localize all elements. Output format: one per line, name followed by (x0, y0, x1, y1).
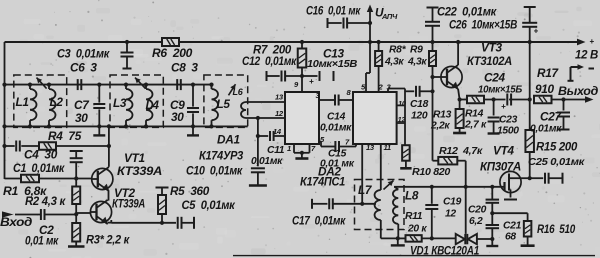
ground L8 (397, 238, 399, 245)
capacitor C15 (334, 141, 336, 152)
svg-text:R12 4,7к: R12 4,7к (439, 146, 483, 157)
svg-text:L1: L1 (16, 95, 29, 109)
svg-text:12: 12 (445, 209, 456, 220)
wire bottom frame (233, 255, 595, 257)
svg-text:R3* 2,2 к: R3* 2,2 к (86, 233, 130, 247)
wire C2021-R16 (492, 212, 527, 214)
junction base-R2R3 (74, 212, 78, 216)
wire left frame vertical (4, 42, 6, 179)
shield box L5 L6 (204, 75, 248, 127)
svg-text:С22 0,01мк: С22 0,01мк (437, 5, 497, 19)
resistor R1 (21, 175, 39, 183)
svg-text:Выход: Выход (558, 84, 598, 98)
capacitor C14 (334, 95, 336, 106)
IC DA2 box (353, 92, 397, 144)
UAPCH arrow (367, 5, 373, 13)
svg-text:С12 0,01мк: С12 0,01мк (242, 54, 297, 68)
svg-text:L4: L4 (146, 98, 160, 112)
svg-text:С14: С14 (327, 112, 346, 123)
junction C19 bottom (430, 236, 434, 240)
junction L1 top (28, 83, 32, 87)
capacitor C12 (266, 71, 268, 81)
capacitor C10 (251, 167, 265, 169)
svg-text:2,7 к: 2,7 к (464, 120, 487, 131)
svg-text:R9: R9 (410, 45, 423, 56)
junction emitter node (458, 97, 462, 101)
svg-text:+: + (501, 102, 506, 111)
wire pin9 (301, 76, 303, 92)
shield box L3 L4 (110, 75, 163, 127)
junction rail-VT3 (456, 40, 460, 44)
wire VT2 emitter (108, 222, 112, 224)
capacitor C17 (311, 199, 313, 209)
svg-text:12 В: 12 В (575, 48, 599, 62)
resistor R12 (433, 160, 439, 162)
junction frame-tankrail (2, 124, 6, 128)
resistor R17 (534, 96, 552, 104)
junction L3 bottom (124, 124, 128, 128)
svg-text:R6 200: R6 200 (152, 46, 193, 60)
svg-text:С17 0,01мк: С17 0,01мк (292, 214, 346, 228)
capacitor C2 (40, 209, 42, 220)
tuning arrow L3-L4 (135, 78, 146, 89)
svg-text:68: 68 (505, 232, 516, 243)
junction C16-UAPCH (368, 21, 372, 25)
inductor L3 (125, 85, 127, 89)
capacitor C18 (405, 90, 414, 92)
wire gate row (394, 186, 500, 188)
capacitor C11 (258, 135, 268, 137)
svg-text:VT1: VT1 (124, 151, 145, 165)
inductor L6 (241, 102, 246, 118)
junction frame-input (2, 83, 6, 87)
tuning arrow L7-L8 (384, 181, 394, 190)
inductor L7 (375, 190, 381, 220)
svg-text:С16 0,01 мк: С16 0,01 мк (306, 4, 361, 18)
svg-text:R8*: R8* (389, 45, 407, 56)
junction rail-UAPCH (368, 40, 372, 44)
junction C7 bottom (97, 124, 101, 128)
junction L1 bottom (28, 124, 32, 128)
svg-text:L8: L8 (405, 189, 419, 203)
resistor R6 (162, 38, 179, 46)
capacitor C22 (427, 7, 439, 9)
junction drain (528, 176, 532, 180)
junction base-R9line (430, 75, 434, 79)
svg-text:30: 30 (171, 110, 184, 124)
capacitor C5 (177, 217, 179, 229)
svg-text:+: + (589, 37, 594, 46)
junction C7 top (97, 83, 101, 87)
wire pin3 DA2 (387, 89, 389, 93)
junction C9 top (191, 83, 195, 87)
svg-text:R16 510: R16 510 (537, 222, 576, 236)
wire right column (529, 42, 531, 100)
svg-text:20 к: 20 к (407, 224, 427, 235)
transistor VT4 (500, 171, 521, 192)
junction L5 top (209, 83, 213, 87)
junction L2 bottom (47, 124, 51, 128)
resistor R2 (75, 179, 77, 187)
junction rail-C3 (125, 40, 129, 44)
svg-text:R15 200: R15 200 (536, 140, 578, 154)
svg-text:30: 30 (75, 111, 88, 125)
junction L4 bottom (144, 124, 148, 128)
svg-text:L2: L2 (50, 95, 64, 109)
transistor VT2 (90, 201, 111, 222)
resistor R15 (525, 130, 534, 152)
svg-text:4,3к: 4,3к (407, 57, 427, 68)
capacitor C7 (98, 85, 100, 103)
wire L6 bottom to C10 (257, 118, 259, 166)
junction VT1 collector rail (107, 124, 111, 128)
resistor R16 (527, 213, 529, 221)
svg-text:10мк×15В: 10мк×15В (307, 59, 358, 70)
wire top supply rail right segment (179, 41, 583, 43)
svg-text:DA1: DA1 (217, 133, 240, 147)
svg-text:С10 0,01мк: С10 0,01мк (186, 164, 243, 178)
wire VT3 collector (457, 42, 459, 65)
svg-text:КТ339А: КТ339А (112, 197, 145, 211)
svg-text:+: + (309, 77, 314, 86)
svg-text:С25 0,01мк: С25 0,01мк (528, 157, 585, 168)
resistor R14 (467, 96, 484, 104)
wire VT3 emitter (458, 89, 460, 100)
svg-text:13: 13 (275, 93, 284, 102)
svg-text:С11: С11 (267, 145, 285, 156)
svg-text:С7: С7 (74, 98, 90, 112)
resistor R11 horizontal (398, 237, 406, 239)
junction C27 (561, 97, 565, 101)
inductor L5 (211, 85, 213, 89)
capacitor C23 (493, 100, 495, 116)
junction C11 tap (256, 134, 260, 138)
junction frame-C4 (2, 144, 6, 148)
svg-text:1500: 1500 (497, 126, 519, 137)
svg-text:L7: L7 (358, 183, 373, 197)
junction C1-base (74, 176, 78, 180)
wire input (15, 214, 41, 216)
svg-text:С27: С27 (540, 110, 562, 124)
svg-text:С26 10мк×15В: С26 10мк×15В (449, 18, 518, 32)
svg-text:С20: С20 (468, 205, 487, 216)
capacitor C24 (506, 94, 508, 106)
svg-text:0,01мк: 0,01мк (251, 156, 283, 167)
svg-text:L6: L6 (233, 87, 244, 97)
wire pin3 to pin8 (319, 99, 335, 101)
junction collector-R4 (107, 144, 111, 148)
svg-text:С19: С19 (443, 197, 462, 208)
svg-text:R4 75: R4 75 (48, 129, 82, 143)
tuning arrow L5-L6 (229, 84, 236, 95)
wire pin13 down (361, 144, 363, 204)
wire tank top (5, 84, 212, 86)
tuning arrow L1-L2 (37, 78, 47, 89)
svg-text:КТ3102А: КТ3102А (467, 54, 512, 68)
svg-text:120: 120 (411, 111, 428, 122)
svg-text:С6 3: С6 3 (70, 61, 97, 75)
resistor R13 (459, 100, 461, 110)
input arrow (2, 211, 14, 217)
wire pin11 down (380, 144, 382, 190)
svg-text:0,01мк: 0,01мк (320, 123, 352, 134)
junction L3 top (124, 83, 128, 87)
inductor L2 (48, 85, 50, 89)
wire top supply rail left segment (5, 41, 163, 43)
inductor L8 (395, 187, 399, 190)
svg-text:0,01 мк: 0,01 мк (25, 234, 59, 248)
wire DA1 gnd pins (293, 144, 295, 153)
junction C23 node (492, 97, 496, 101)
svg-text:С21: С21 (503, 221, 522, 232)
svg-text:Вход: Вход (0, 215, 32, 229)
svg-text:С24: С24 (484, 71, 505, 85)
wire pin10 stub (397, 104, 405, 106)
junction C19-gate (430, 185, 434, 189)
svg-text:R11: R11 (405, 211, 423, 222)
svg-text:К174ПС1: К174ПС1 (300, 175, 345, 189)
capacitor C21 (491, 213, 493, 225)
svg-text:+: + (534, 27, 539, 36)
svg-text:13: 13 (366, 143, 375, 152)
wire emitter row (460, 99, 467, 101)
svg-text:12: 12 (275, 109, 284, 118)
capacitor C25 (530, 177, 544, 179)
shield box L1 L2 (14, 75, 67, 127)
junction rail-R7 (300, 40, 304, 44)
output jack bracket (570, 67, 572, 81)
wire VT4 drain (521, 177, 530, 179)
svg-text:КП307А: КП307А (480, 160, 521, 174)
capacitor C13 (302, 75, 318, 77)
resistor R9 (432, 42, 434, 51)
svg-text:К174УР3: К174УР3 (199, 149, 244, 163)
wire C4 R4 feedback (5, 145, 15, 147)
svg-text:L3: L3 (113, 96, 127, 110)
transistor VT1 (92, 168, 113, 189)
junction C9 bottom (191, 124, 195, 128)
junction R7-C12-pin9 (300, 74, 304, 78)
svg-text:АПЧ: АПЧ (381, 12, 398, 21)
svg-text:КТ339А: КТ339А (117, 164, 162, 178)
svg-text:L5: L5 (217, 97, 231, 111)
junction L5 bottom (209, 124, 213, 128)
resistor R7 (298, 49, 307, 68)
VT4 source bar (504, 199, 517, 201)
wire VT1 base (5, 178, 22, 180)
capacitor C1 (70, 150, 83, 152)
capacitor C6 (77, 79, 79, 90)
junction L8 bottom (396, 236, 400, 240)
transistor VT3 (441, 66, 462, 87)
junction pin13-C17 (360, 202, 364, 206)
capacitor C8 (176, 79, 178, 90)
ground under C7 (98, 126, 100, 135)
inductor L1 (29, 85, 31, 89)
svg-text:С1 0,01мк: С1 0,01мк (13, 161, 65, 175)
capacitor C26 (524, 6, 536, 8)
junction C20-C21 (490, 211, 494, 215)
svg-text:6,2: 6,2 (469, 216, 483, 227)
resistor R8 (378, 42, 380, 51)
svg-text:R14: R14 (465, 109, 484, 120)
junction C18-R9 (430, 89, 434, 93)
svg-text:10мк×15Б: 10мк×15Б (478, 85, 522, 96)
svg-text:R10 820: R10 820 (412, 167, 451, 178)
svg-text:С5 0,01мк: С5 0,01мк (182, 198, 236, 212)
svg-text:С23: С23 (499, 115, 518, 126)
junction rail-R9 (430, 40, 434, 44)
junction DA1 gnd (300, 151, 304, 155)
diode pair VD1 (456, 234, 465, 244)
junction C20-gate (490, 185, 494, 189)
wire VT1 emitter to VT2 collector (108, 191, 110, 201)
capacitor C27 (563, 100, 565, 111)
svg-text:С8 3: С8 3 (171, 61, 198, 75)
capacitor C9 (192, 85, 194, 107)
capacitor C4 (15, 141, 17, 152)
ground under C9 (192, 126, 194, 135)
junction rail-R8 (377, 40, 381, 44)
shield box L7 L8 (355, 180, 405, 230)
svg-text:R17: R17 (537, 66, 559, 80)
svg-text:0,01мк: 0,01мк (530, 124, 562, 135)
capacitor C20 (491, 187, 493, 200)
junction L4 top (144, 83, 148, 87)
wire tank bottom (5, 125, 248, 127)
resistor R10 (402, 145, 410, 161)
svg-text:R13: R13 (433, 110, 452, 121)
junction rightcol-row (528, 97, 532, 101)
svg-text:VT4: VT4 (493, 144, 514, 158)
junction rail-C26 (528, 40, 532, 44)
wire pin12 stub (397, 122, 405, 124)
svg-text:R2 4,3 к: R2 4,3 к (25, 194, 66, 208)
resistor R4 (39, 142, 56, 150)
svg-text:VT3: VT3 (481, 41, 502, 55)
resistor R5 (156, 187, 169, 189)
wire 12V arrowhead (577, 39, 586, 46)
wire output (552, 99, 589, 101)
inductor L4 (145, 85, 147, 89)
junction L2 top (47, 83, 51, 87)
svg-text:С18: С18 (410, 99, 429, 110)
IC DA1 box (285, 92, 319, 144)
junction L6-bottom-line (256, 116, 260, 120)
wire UAPCH (369, 8, 371, 74)
wire R9 line to R12 (432, 91, 434, 160)
wire VT3 base (433, 76, 441, 78)
wire pin5 to pin7 (319, 141, 321, 143)
capacitor C3 (126, 42, 128, 52)
junction R5-emitter (160, 221, 164, 225)
svg-text:1: 1 (287, 144, 291, 153)
svg-text:R5 360: R5 360 (170, 184, 210, 198)
junction R12-gate (464, 185, 468, 189)
svg-text:11: 11 (384, 143, 391, 152)
svg-text:4,3к: 4,3к (384, 57, 404, 68)
output arrow (585, 96, 594, 103)
svg-text:С3 0,01мк: С3 0,01мк (57, 47, 110, 61)
svg-text:910: 910 (535, 82, 555, 96)
capacitor C16 (327, 18, 329, 28)
wire VT1 collector (108, 126, 110, 166)
svg-text:С4 30: С4 30 (24, 148, 58, 162)
resistor R3 (75, 215, 77, 224)
capacitor C19 (431, 187, 433, 204)
